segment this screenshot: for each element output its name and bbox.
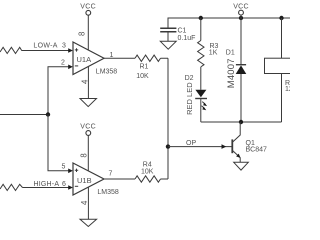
transistor Q1 collector (233, 122, 240, 142)
svg-text:7: 7 (109, 170, 113, 177)
ground (U1A pin 4) (80, 99, 97, 107)
wire pin 4 to ground (87, 187, 89, 219)
node OP junction (166, 144, 170, 148)
svg-text:R1: R1 (140, 64, 149, 71)
wire pin 8 to VCC (87, 15, 89, 50)
svg-text:R4: R4 (143, 161, 152, 168)
capacitor C1 bottom plate (160, 31, 176, 33)
wire node to U1B pin 5 (48, 115, 69, 171)
wire VCC to D1 (240, 15, 242, 65)
pin 5 arrowhead (68, 169, 73, 174)
wire reference input from left edge (0, 114, 48, 116)
svg-text:RED LED: RED LED (185, 82, 194, 115)
svg-text:12: 12 (285, 86, 290, 93)
svg-text:M4007: M4007 (226, 58, 237, 88)
wire R3 to LED D2 (200, 67, 202, 90)
svg-text:10K: 10K (141, 169, 154, 176)
wire LOW-A to U1A pin 3 (22, 50, 70, 52)
svg-text:4: 4 (80, 200, 89, 205)
wire OP node to Q1 base (168, 146, 232, 148)
wire bottom bus (201, 121, 282, 123)
resistor R4 (135, 176, 161, 182)
wire bus to R3 (200, 18, 202, 41)
junction node (collector/D1) (239, 120, 243, 124)
svg-text:8: 8 (80, 153, 89, 157)
wire node to U1A pin 2 (48, 67, 69, 115)
ground (C1) (160, 41, 176, 49)
ground (Q1 emitter) (234, 162, 249, 170)
pin 3 arrowhead (68, 48, 73, 53)
wire U1B output to R4 (104, 178, 135, 180)
pin 2 arrowhead (68, 65, 73, 70)
wire R1 to node column (161, 57, 169, 59)
wire D1 to bottom bus (240, 74, 242, 122)
op-amp U1A (73, 42, 104, 75)
wire R4 to node column (161, 178, 169, 180)
wire node column vertical (167, 58, 169, 179)
svg-text:VCC: VCC (233, 4, 249, 11)
svg-text:LM358: LM358 (96, 68, 118, 75)
wire bus to relay coil (281, 18, 283, 58)
pin 6 arrowhead (68, 185, 73, 190)
capacitor C1 top plate (160, 27, 176, 29)
svg-text:D1: D1 (226, 50, 235, 57)
transistor Q1 emitter (233, 151, 240, 158)
svg-text:VCC: VCC (80, 123, 96, 130)
wire emitter to ground (239, 158, 241, 163)
svg-text:2: 2 (61, 60, 65, 67)
svg-text:C1: C1 (178, 27, 187, 34)
op-amp U1B (73, 163, 104, 195)
resistor R3 (198, 41, 204, 67)
wire U1A output to R1 (104, 57, 135, 59)
LED D2 emission arrows (202, 102, 205, 105)
junction node (relay branch) (279, 16, 283, 20)
svg-text:LM358: LM358 (97, 189, 119, 196)
svg-text:U1A: U1A (77, 55, 92, 64)
svg-text:4: 4 (81, 79, 90, 84)
svg-text:U1B: U1B (77, 176, 92, 185)
resistor (HIGH-A input, clipped at left edge) (0, 184, 23, 190)
wire pin 4 to ground (87, 67, 89, 99)
junction node (46, 112, 50, 116)
svg-text:OP: OP (186, 140, 196, 147)
wire LED to bottom bus (200, 99, 202, 123)
diode D1 (M4007, cathode up) (236, 64, 246, 66)
svg-text:0.1uF: 0.1uF (178, 35, 196, 42)
LED D2 (195, 90, 206, 97)
signal arrowhead on OP wire (222, 144, 227, 149)
ground (U1B pin 4) (80, 219, 97, 226)
svg-text:6: 6 (62, 181, 66, 188)
wire HIGH-A to U1B pin 6 (23, 187, 70, 189)
svg-text:D2: D2 (185, 75, 194, 82)
svg-text:HIGH-A: HIGH-A (34, 181, 60, 188)
wire C1 to ground (167, 32, 169, 42)
svg-text:BC847: BC847 (246, 147, 268, 154)
svg-text:5: 5 (62, 163, 66, 170)
svg-text:LOW-A: LOW-A (33, 43, 57, 50)
resistor R1 (135, 55, 161, 61)
svg-text:8: 8 (77, 32, 86, 36)
resistor (LOW-A input, clipped at left edge) (0, 47, 22, 53)
svg-text:10K: 10K (136, 73, 149, 80)
wire relay to bottom bus (281, 74, 283, 123)
junction node (VCC/D1) (239, 16, 243, 20)
svg-text:VCC: VCC (80, 4, 96, 11)
VCC bus wire (top) (168, 18, 290, 28)
relay coil RL (clipped at right edge) (265, 58, 298, 73)
junction node (R3 branch) (199, 16, 203, 20)
svg-text:3: 3 (62, 43, 66, 50)
wire pin 8 to VCC (87, 135, 89, 171)
transistor Q1 base bar (231, 139, 233, 153)
svg-text:1K: 1K (209, 49, 218, 56)
